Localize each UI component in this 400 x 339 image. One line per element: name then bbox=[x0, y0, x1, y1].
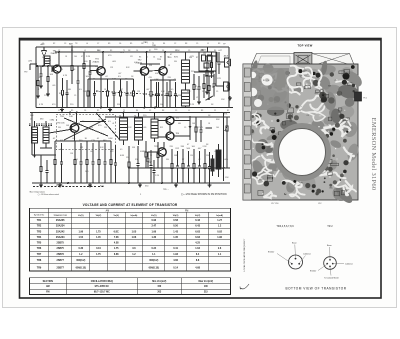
svg-text:.005: .005 bbox=[143, 127, 146, 129]
svg-text:1.96: 1.96 bbox=[78, 230, 83, 233]
svg-text:Ic(mA): Ic(mA) bbox=[216, 214, 223, 217]
resistor R35 bbox=[195, 117, 197, 127]
pcb board outline bbox=[243, 64, 358, 200]
svg-text:470: 470 bbox=[96, 91, 99, 93]
svg-text:C23: C23 bbox=[110, 67, 113, 69]
svg-text:SW: SW bbox=[328, 85, 331, 87]
svg-text:R7: R7 bbox=[82, 121, 84, 123]
svg-text:680: 680 bbox=[68, 89, 71, 91]
svg-text:.02: .02 bbox=[198, 159, 200, 161]
svg-text:470: 470 bbox=[48, 60, 51, 62]
svg-text:RC 1 TM: RC 1 TM bbox=[263, 80, 270, 82]
main table grid bbox=[30, 208, 231, 271]
wire cap c2 bottom stub bbox=[51, 66, 53, 72]
svg-text:2SA242: 2SA242 bbox=[56, 230, 65, 233]
svg-text:R3: R3 bbox=[201, 110, 203, 112]
svg-text:IF: IF bbox=[338, 114, 340, 116]
oscillator table grid bbox=[30, 278, 231, 295]
svg-text:600(0.15): 600(0.15) bbox=[149, 266, 159, 269]
capacitor C35 bbox=[200, 120, 202, 130]
transistor TR7 bbox=[158, 148, 166, 156]
wire TR4 collector bbox=[76, 113, 78, 124]
svg-text:C2: C2 bbox=[58, 50, 60, 52]
svg-text:TP-1: TP-1 bbox=[363, 98, 367, 100]
svg-text:EMERSON Model 31P60: EMERSON Model 31P60 bbox=[370, 118, 377, 191]
svg-text:C2: C2 bbox=[174, 43, 176, 45]
svg-text:1.45: 1.45 bbox=[96, 236, 101, 239]
svg-text:680: 680 bbox=[178, 123, 181, 125]
svg-text:6.8K: 6.8K bbox=[120, 155, 125, 157]
svg-text:R6: R6 bbox=[208, 99, 210, 101]
svg-text:LOCAL OSCILLATOR FREQUENCY: LOCAL OSCILLATOR FREQUENCY bbox=[243, 238, 246, 271]
svg-text:4.7K: 4.7K bbox=[76, 123, 81, 125]
transistor TR4 am converter bbox=[70, 124, 79, 133]
svg-text:VOL: VOL bbox=[224, 114, 228, 116]
svg-text:.01: .01 bbox=[214, 151, 216, 153]
svg-text:4.66: 4.66 bbox=[173, 259, 178, 262]
svg-text:T4: T4 bbox=[134, 116, 136, 118]
svg-text:R2: R2 bbox=[209, 86, 211, 88]
svg-text:R8: R8 bbox=[162, 110, 164, 112]
wire above circles link bbox=[140, 63, 160, 65]
svg-text:C4: C4 bbox=[326, 93, 328, 95]
resistor left bottom r50 bbox=[40, 155, 42, 167]
wire cap c4 stub bbox=[77, 98, 79, 108]
svg-text:R5: R5 bbox=[97, 110, 99, 112]
svg-text:C6: C6 bbox=[119, 43, 121, 45]
capacitor audio 46 bbox=[199, 151, 201, 166]
ferrite rod coil L3 bbox=[32, 127, 38, 143]
svg-text:TR 2: TR 2 bbox=[327, 225, 333, 228]
svg-text:1.36: 1.36 bbox=[151, 236, 156, 239]
svg-text:R7: R7 bbox=[160, 57, 162, 59]
wire comb bus bbox=[88, 78, 134, 80]
wire right vertical bbox=[228, 47, 230, 108]
wire B+ top rail bbox=[36, 46, 229, 48]
svg-text:600(0.2): 600(0.2) bbox=[76, 259, 85, 262]
capacitor fm if 14 bbox=[175, 82, 177, 94]
ground audio 2 bbox=[139, 183, 141, 185]
svg-text:TR6: TR6 bbox=[176, 133, 180, 135]
wire mid rail 2 bbox=[105, 116, 230, 118]
svg-text:FM: FM bbox=[185, 210, 188, 212]
wire input jog bbox=[30, 63, 37, 65]
capacitor am 26 bbox=[92, 143, 94, 162]
svg-text:600(0.2): 600(0.2) bbox=[149, 259, 158, 262]
capacitor fm front 7 bbox=[113, 81, 115, 93]
svg-text:R2: R2 bbox=[174, 57, 176, 59]
wire detector out bbox=[206, 127, 213, 129]
IF transformer T1 bbox=[182, 60, 190, 83]
svg-text:R1: R1 bbox=[301, 182, 303, 184]
svg-text:C2: C2 bbox=[149, 110, 151, 112]
svg-text:R3: R3 bbox=[218, 43, 220, 45]
wire am coil bottom bbox=[45, 143, 47, 148]
svg-text:2SB77: 2SB77 bbox=[57, 266, 65, 269]
resistor R3 bbox=[71, 52, 73, 66]
svg-text:C9: C9 bbox=[74, 95, 76, 97]
speaker hole surround bbox=[276, 126, 329, 179]
driver transformer T5 bbox=[211, 159, 215, 171]
wire bottom right link bbox=[226, 140, 228, 168]
svg-text:T3: T3 bbox=[119, 116, 121, 118]
svg-text:TR8: TR8 bbox=[37, 259, 42, 262]
transistor TR1 fm rf bbox=[53, 65, 61, 73]
svg-text:1 MΩ: 1 MΩ bbox=[50, 120, 55, 122]
svg-text:TR9: TR9 bbox=[37, 266, 42, 269]
wire TR5 TR6 chain bbox=[169, 125, 171, 133]
speaker hole bbox=[279, 129, 326, 176]
svg-text:R4: R4 bbox=[163, 43, 165, 45]
svg-text:R6: R6 bbox=[214, 50, 216, 52]
svg-text:C1: C1 bbox=[42, 43, 44, 45]
resistor fm if 13 bbox=[169, 80, 171, 91]
resistor R17 bbox=[208, 76, 210, 86]
svg-text:120: 120 bbox=[190, 155, 193, 157]
coil L1 bbox=[37, 66, 39, 72]
capacitor am 24 bbox=[80, 143, 82, 162]
svg-text:TRANSISTOR: TRANSISTOR bbox=[53, 214, 67, 217]
svg-text:Emitter: Emitter bbox=[268, 251, 275, 254]
svg-text:0.5: 0.5 bbox=[141, 75, 143, 77]
svg-text:T2: T2 bbox=[152, 43, 154, 45]
svg-text:1.27: 1.27 bbox=[217, 219, 222, 222]
svg-text:R12: R12 bbox=[315, 93, 318, 95]
svg-text:C7: C7 bbox=[97, 43, 99, 45]
svg-text:330: 330 bbox=[174, 61, 177, 63]
junction dots input bbox=[36, 65, 38, 67]
svg-text:7.08: 7.08 bbox=[114, 236, 119, 239]
jack J1 bbox=[225, 58, 230, 67]
svg-text:L4: L4 bbox=[86, 43, 88, 45]
transistor TR2 bbox=[140, 67, 148, 75]
svg-text:R3: R3 bbox=[139, 57, 141, 59]
svg-text:R2: R2 bbox=[227, 110, 229, 112]
svg-text:120: 120 bbox=[203, 53, 206, 55]
coil L2 bbox=[83, 52, 85, 64]
capacitor C3 bbox=[66, 80, 68, 93]
svg-text:2.2K: 2.2K bbox=[86, 56, 91, 58]
svg-text:TP2: TP2 bbox=[24, 72, 27, 74]
svg-text:47: 47 bbox=[121, 89, 123, 91]
svg-text:4.7K: 4.7K bbox=[63, 75, 68, 77]
svg-text:1.05: 1.05 bbox=[132, 230, 137, 233]
wire TR2 emitter bbox=[144, 75, 146, 107]
svg-text:R3: R3 bbox=[110, 50, 112, 52]
svg-text:C8: C8 bbox=[141, 43, 143, 45]
svg-text:IF: IF bbox=[302, 193, 304, 195]
curved arrow bbox=[241, 284, 250, 289]
svg-text:0.5: 0.5 bbox=[120, 149, 122, 151]
resistor audio 43 bbox=[182, 149, 184, 164]
capacitor right cluster c19 bbox=[218, 52, 220, 62]
svg-text:0.58: 0.58 bbox=[173, 219, 178, 222]
svg-text:2SA235: 2SA235 bbox=[93, 60, 100, 63]
svg-text:6.63: 6.63 bbox=[195, 236, 200, 239]
resistor detector r36 bbox=[157, 142, 159, 153]
pinout TR3-9 pins bbox=[295, 258, 297, 260]
pcb copper texture bbox=[284, 131, 307, 148]
svg-text:R9: R9 bbox=[71, 110, 73, 112]
wire coil l2 stub bbox=[83, 80, 85, 108]
diagonal osc wire 3 bbox=[96, 113, 120, 141]
svg-text:4.7K: 4.7K bbox=[39, 104, 44, 106]
svg-text:1.75: 1.75 bbox=[96, 230, 101, 233]
svg-text:JACK: JACK bbox=[224, 55, 229, 58]
svg-text:C6: C6 bbox=[202, 91, 204, 93]
svg-text:.047: .047 bbox=[146, 89, 149, 91]
diagonal osc wire 2 bbox=[64, 119, 106, 140]
svg-text:C5: C5 bbox=[175, 110, 177, 112]
capacitor fm front 9 bbox=[126, 81, 128, 93]
capacitor left bottom c50 bbox=[46, 160, 48, 171]
svg-text:C5: C5 bbox=[196, 43, 198, 45]
jack J2 bbox=[224, 82, 229, 91]
svg-text:FM: FM bbox=[46, 292, 49, 294]
capacitor fm if 12 bbox=[156, 82, 158, 94]
svg-text:47: 47 bbox=[81, 56, 83, 58]
svg-text:C23: C23 bbox=[80, 147, 83, 149]
resistor am 27 bbox=[98, 141, 100, 160]
svg-text:1.75: 1.75 bbox=[114, 247, 119, 250]
svg-text:Vb(V): Vb(V) bbox=[96, 215, 102, 217]
svg-text:Symbol No: Symbol No bbox=[34, 215, 45, 217]
resistor R32 bbox=[145, 141, 147, 152]
dashed box tuning gang bbox=[56, 115, 115, 150]
output transformer T6 bbox=[216, 150, 221, 169]
svg-text:Vc(V): Vc(V) bbox=[151, 215, 157, 217]
wire audio rail bbox=[128, 167, 230, 169]
wire second top rail bbox=[55, 51, 213, 53]
svg-text:98.7–120.7 MC: 98.7–120.7 MC bbox=[94, 292, 110, 294]
switch SW1 bbox=[206, 96, 213, 100]
capacitor audio 42 bbox=[177, 151, 179, 166]
svg-text:C6: C6 bbox=[167, 57, 169, 59]
svg-text:R7: R7 bbox=[149, 50, 151, 52]
wire jack J2 feed bbox=[216, 85, 224, 87]
svg-text:1.66: 1.66 bbox=[151, 230, 156, 233]
svg-text:1.43: 1.43 bbox=[173, 230, 178, 233]
resistor fm if 11 bbox=[150, 80, 152, 91]
svg-text:6.43: 6.43 bbox=[195, 219, 200, 222]
capacitor fm extra c13 bbox=[158, 82, 160, 94]
svg-text:TL Isolated Shield: TL Isolated Shield bbox=[324, 277, 338, 280]
ferrite rod coil L4 bbox=[43, 127, 49, 143]
pinout TR2 circle bbox=[324, 257, 337, 270]
svg-text:TR5: TR5 bbox=[37, 242, 42, 245]
resistor audio 41 bbox=[171, 149, 173, 164]
tuning capacitor center block bbox=[294, 53, 312, 67]
wire am coil to base bbox=[49, 130, 70, 134]
svg-text:6.8K: 6.8K bbox=[109, 138, 114, 140]
svg-text:C7: C7 bbox=[58, 110, 60, 112]
svg-text:C6: C6 bbox=[84, 110, 86, 112]
svg-text:TR5 →: TR5 → bbox=[163, 189, 169, 191]
svg-text:R7: R7 bbox=[299, 110, 301, 112]
frame top rule bbox=[20, 39, 381, 41]
resistor fm front 4 bbox=[87, 79, 89, 91]
svg-text:C1.5: C1.5 bbox=[120, 52, 124, 54]
fm detector box bbox=[199, 52, 216, 71]
svg-text:.005: .005 bbox=[52, 85, 55, 87]
svg-text:R12: R12 bbox=[160, 127, 163, 129]
svg-text:C2: C2 bbox=[271, 142, 273, 144]
wire right cluster link bbox=[205, 55, 216, 57]
svg-text:L2: L2 bbox=[196, 97, 198, 99]
ground fm 1 bbox=[61, 108, 63, 110]
resistor right cluster r19 bbox=[211, 52, 213, 63]
svg-text:.047: .047 bbox=[118, 73, 121, 75]
svg-text:1.64: 1.64 bbox=[195, 247, 200, 250]
resistor right cluster r18 bbox=[206, 56, 208, 71]
svg-text:330: 330 bbox=[58, 127, 61, 129]
svg-text:2SB75: 2SB75 bbox=[57, 242, 65, 245]
svg-text:0.24: 0.24 bbox=[151, 247, 156, 250]
svg-text:2SB76: 2SB76 bbox=[57, 253, 65, 256]
pcb dark blobs bbox=[343, 73, 350, 80]
svg-text:R5: R5 bbox=[71, 50, 73, 52]
svg-text:6.68: 6.68 bbox=[114, 253, 119, 256]
pinout TR3-9 circle bbox=[289, 255, 303, 269]
svg-text:220: 220 bbox=[60, 69, 63, 71]
svg-text:(2P): (2P) bbox=[29, 61, 33, 63]
ground jack J2 bbox=[229, 96, 231, 98]
svg-text:.02: .02 bbox=[89, 72, 91, 74]
svg-text:Collector: Collector bbox=[303, 253, 311, 256]
svg-text:OSCILLATOR FREQ: OSCILLATOR FREQ bbox=[91, 280, 113, 283]
svg-text:220: 220 bbox=[104, 127, 107, 129]
resistor fm front 10 bbox=[133, 79, 135, 91]
wire TR1 collector lead bbox=[58, 52, 60, 65]
svg-text:R5: R5 bbox=[130, 43, 132, 45]
resistor audio 47 bbox=[204, 149, 206, 164]
svg-text:4.25: 4.25 bbox=[195, 242, 200, 245]
wire B+ vertical bbox=[223, 113, 225, 182]
capacitor C4 bbox=[77, 66, 79, 81]
svg-text:TR7: TR7 bbox=[37, 253, 42, 256]
svg-text:C9: C9 bbox=[184, 127, 186, 129]
capacitor am 22 bbox=[61, 143, 63, 162]
diagonal osc wire 1 bbox=[64, 118, 108, 136]
pinout TR2 pins bbox=[329, 259, 331, 261]
dashed af line bbox=[33, 186, 105, 188]
IF transformer T2 bbox=[182, 90, 190, 106]
wire audio link bbox=[148, 167, 162, 169]
svg-text:C1: C1 bbox=[214, 110, 216, 112]
wire TR2 TR3 link bbox=[149, 70, 159, 73]
svg-text:R7: R7 bbox=[195, 86, 197, 88]
svg-text:330: 330 bbox=[166, 159, 169, 161]
electrolytic C45 bbox=[209, 152, 211, 167]
svg-text:2.2K: 2.2K bbox=[155, 175, 160, 177]
svg-text:2.2K: 2.2K bbox=[190, 104, 195, 106]
schematic outer frame bbox=[20, 39, 382, 299]
svg-text:TR6: TR6 bbox=[37, 247, 42, 250]
resistor am 23 bbox=[74, 141, 76, 160]
svg-text:C6: C6 bbox=[162, 50, 164, 52]
svg-text:TR2: TR2 bbox=[37, 225, 42, 228]
pcb white discs bbox=[250, 72, 256, 78]
svg-text:C8: C8 bbox=[110, 110, 112, 112]
svg-text:C4: C4 bbox=[153, 57, 155, 59]
resistor R16 bbox=[203, 74, 205, 84]
resistor am 29 bbox=[110, 141, 112, 160]
svg-text:C3: C3 bbox=[64, 43, 66, 45]
svg-text:Ic(mA): Ic(mA) bbox=[131, 214, 138, 217]
resistor fm front 6 bbox=[107, 79, 109, 91]
svg-text:0.50: 0.50 bbox=[173, 225, 178, 228]
capacitor C17 bbox=[213, 74, 215, 84]
svg-text:TR1: TR1 bbox=[37, 219, 42, 222]
wire TR1 emitter lead bbox=[56, 73, 58, 108]
svg-text:2SA234: 2SA234 bbox=[56, 236, 65, 239]
ground am coil bbox=[34, 143, 36, 153]
ratio detector transformer ladder bbox=[151, 119, 158, 138]
volume control VR1 bbox=[226, 117, 228, 126]
svg-text:R2: R2 bbox=[53, 43, 55, 45]
svg-text:2SB75: 2SB75 bbox=[57, 247, 65, 250]
svg-text:2.47: 2.47 bbox=[151, 225, 156, 228]
tuning capacitor left plate bbox=[251, 54, 294, 67]
wire TR7 emitter bbox=[161, 156, 163, 183]
svg-text:T1: T1 bbox=[146, 57, 148, 59]
capacitor C31 bbox=[137, 146, 139, 164]
svg-text:AM: AM bbox=[46, 285, 50, 288]
svg-text:R4: R4 bbox=[136, 110, 138, 112]
svg-text:Ve(V): Ve(V) bbox=[195, 215, 201, 217]
svg-text:120: 120 bbox=[90, 127, 93, 129]
svg-text:( ) - 1/8 Vrms unless noted: ( ) - 1/8 Vrms unless noted bbox=[38, 193, 59, 196]
svg-text:4.58: 4.58 bbox=[114, 242, 119, 245]
wire FM ground rail bbox=[36, 107, 233, 109]
wire TR1 emitter bbox=[100, 75, 102, 108]
svg-text:.01: .01 bbox=[112, 123, 114, 125]
wire bottom ground rail bbox=[32, 182, 230, 184]
wire AM mid rail bbox=[30, 112, 230, 114]
svg-text:L3: L3 bbox=[307, 75, 309, 77]
svg-text:L3: L3 bbox=[322, 96, 324, 98]
svg-text:.01: .01 bbox=[37, 89, 39, 91]
svg-text:Emitter: Emitter bbox=[310, 270, 317, 273]
svg-text:TR4: TR4 bbox=[37, 236, 42, 239]
wire TR2 collector bbox=[146, 52, 148, 67]
svg-text:0.36: 0.36 bbox=[78, 247, 83, 250]
wire TR1 base bbox=[90, 70, 97, 72]
svg-text:470: 470 bbox=[200, 127, 203, 129]
svg-text:TOP VIEW: TOP VIEW bbox=[297, 44, 312, 48]
svg-text:47: 47 bbox=[60, 149, 62, 151]
resistor R2 bbox=[62, 78, 64, 90]
transistor TR5 bbox=[166, 117, 174, 125]
wire TR7 collector bbox=[163, 142, 165, 148]
wire am comb bus bbox=[55, 140, 111, 142]
resistor R15 bbox=[193, 74, 195, 85]
svg-text:(AF) (B): (AF) (B) bbox=[56, 183, 63, 186]
svg-text:2.2K: 2.2K bbox=[203, 146, 208, 148]
svg-text:R7: R7 bbox=[182, 159, 184, 161]
svg-text:SECTION: SECTION bbox=[43, 281, 54, 283]
svg-text:6.43: 6.43 bbox=[195, 225, 200, 228]
svg-text:Vc(V): Vc(V) bbox=[78, 215, 84, 217]
svg-text:6.63: 6.63 bbox=[195, 230, 200, 233]
capacitor C1 bbox=[40, 66, 42, 74]
svg-text:C4: C4 bbox=[136, 50, 138, 52]
capacitor C15 bbox=[198, 76, 200, 87]
svg-text:R8: R8 bbox=[185, 43, 187, 45]
dashed ferrite core bbox=[29, 123, 52, 125]
svg-text:TR3: TR3 bbox=[37, 230, 42, 233]
capacitor am extra c29 bbox=[115, 145, 117, 163]
